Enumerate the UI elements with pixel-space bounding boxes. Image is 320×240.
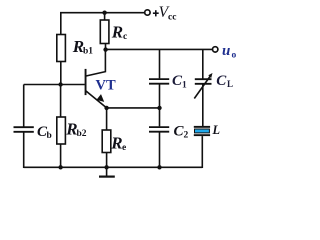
junction dot rail Rb2 [58,165,62,169]
svg-text:C: C [216,73,227,89]
wire Rc bottom to collector node [105,44,107,50]
wire top rail to Rc [104,13,106,20]
svg-text:VT: VT [96,78,116,94]
wire emitter node to C1/C2 node [107,107,160,109]
wire Rb2 top [60,85,62,118]
label Rb1 [72,37,93,56]
svg-text:cc: cc [168,13,176,23]
label +Vcc [153,4,177,23]
junction dot rail Re/ground [104,165,108,169]
terminal uo circle [213,47,218,52]
svg-text:e: e [122,143,126,153]
wire Cb bottom to rail [23,132,25,168]
wire emitter node to Re [106,108,108,130]
wire Cb top column [23,85,25,127]
svg-text:b1: b1 [83,47,93,57]
resistor Rb1 [57,35,66,62]
wire Rb2 bottom to rail [60,144,62,168]
junction dot emitter node [104,106,108,110]
svg-text:R: R [110,133,122,152]
wire base node to base [24,84,85,86]
transistor VT emitter lead with arrow [86,91,107,108]
svg-text:b2: b2 [77,129,87,139]
svg-text:2: 2 [184,131,189,141]
junction dot base node [58,82,62,86]
wire collector node to output terminal [106,48,213,50]
resistor Re [102,130,111,153]
wire CL top column [202,49,204,78]
svg-text:u: u [222,43,230,59]
junction dot rail C2 [157,165,161,169]
wire Re bottom to rail [106,153,108,169]
capacitor CL variable [194,73,212,99]
label L [212,123,221,137]
svg-text:o: o [232,51,237,61]
svg-text:R: R [111,23,123,42]
wire Rb1 bottom to base node [60,62,62,85]
junction dot collector node [103,47,107,51]
label Re [110,133,126,153]
wire CL bottom to L [202,84,204,126]
label Rc [111,23,127,43]
label VT [96,78,116,94]
capacitor Cb [14,127,34,132]
junction dot top rail / Rc [102,11,106,15]
label CL [216,73,233,89]
svg-text:c: c [123,32,127,42]
bottom rail wire [24,166,203,168]
capacitor C1 [149,79,169,84]
wire C1 bottom to node [159,84,161,108]
inductor L [194,126,210,136]
wire top rail from Rb1 column to +Vcc terminal [61,13,144,35]
svg-text:L: L [212,123,221,137]
label Cb [37,124,52,141]
label Rb2 [65,120,86,140]
svg-text:L: L [227,79,233,89]
resistor Rb2 [57,117,66,144]
wire collector lead [86,50,105,76]
ground [99,167,115,176]
wire C2 top [159,108,161,127]
transistor VT base bar [85,69,87,95]
label C1 [172,73,187,90]
junction dot C1/C2 node [157,106,161,110]
label C2 [174,123,189,140]
wire C1 top column [159,49,161,78]
svg-text:1: 1 [182,80,187,90]
wire L bottom to rail [201,136,203,168]
terminal +Vcc circle [145,10,150,15]
capacitor C2 [149,127,169,132]
label uo [222,43,237,61]
resistor Rc [100,20,109,44]
wire C2 bottom to rail [159,132,161,168]
svg-text:b: b [47,131,52,141]
